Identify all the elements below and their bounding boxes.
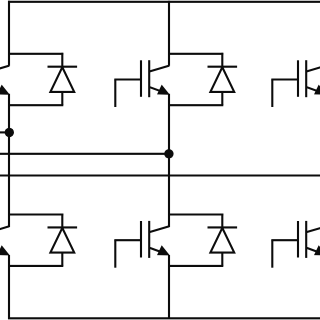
wire: phase-A output stub — [0, 131, 9, 133]
wire: phase-A leg upper segment — [8, 1, 10, 66]
transistor Q3 (upper IGBT, phase B) — [114, 60, 169, 107]
transistor Q1 (IGBT, cropped at left edge) — [0, 66, 9, 95]
diode D3 — [169, 53, 237, 105]
wire: phase-C output wire — [0, 174, 320, 176]
node B (junction dot) — [164, 149, 173, 158]
transistor Q5 (upper IGBT, phase C, cropped at right edge) — [271, 60, 320, 107]
diode D1 — [9, 53, 77, 105]
wire: phase-B leg lower segment — [168, 255, 170, 319]
wire: phase-A leg middle segment — [8, 94, 10, 227]
wire: negative DC bus (bottom rail) — [8, 317, 320, 319]
wire: phase-A leg lower segment — [8, 255, 10, 319]
transistor Q2 (lower IGBT, phase C, cropped at right edge) — [271, 221, 320, 268]
wire: phase-B leg middle segment — [168, 94, 170, 227]
wire: positive DC bus (top rail) — [8, 1, 320, 3]
node A (junction dot) — [5, 128, 14, 137]
wire: phase-B leg upper segment — [168, 1, 170, 66]
transistor Q4 (IGBT, cropped at left edge) — [0, 226, 9, 255]
diode D4 — [9, 214, 77, 266]
transistor Q6 (lower IGBT, phase B) — [114, 221, 169, 268]
diode D6 — [169, 214, 237, 266]
wire: phase-B output wire — [0, 153, 169, 155]
